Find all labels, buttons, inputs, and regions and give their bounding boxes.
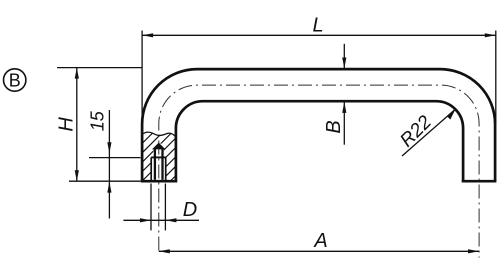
dimension line upper bbox=[343, 44, 345, 69]
tapped hole thread line left bbox=[150, 157, 152, 180]
svg-text:D: D bbox=[183, 199, 197, 221]
drill point cone bbox=[154, 144, 164, 149]
dimension L bbox=[142, 15, 496, 125]
arrowhead lower bbox=[342, 102, 346, 113]
dimension line bbox=[159, 250, 479, 252]
arrowhead bbox=[447, 109, 455, 120]
dimension line bbox=[142, 34, 496, 36]
arrowhead left bbox=[140, 218, 151, 222]
thread depth step line bbox=[151, 156, 166, 158]
dimension A bbox=[159, 230, 479, 253]
radius leader R22 bbox=[396, 109, 455, 156]
extension line right bbox=[495, 31, 497, 125]
svg-text:A: A bbox=[313, 230, 327, 252]
extension line left bbox=[141, 31, 143, 125]
arrowhead bottom bbox=[75, 170, 79, 181]
extension line thread depth bbox=[89, 157, 141, 159]
tapped hole thread line right bbox=[165, 157, 167, 180]
view label circle B bbox=[4, 69, 26, 91]
tube centerline dash-dot bbox=[159, 85, 479, 257]
drill hole wall right bbox=[161, 148, 163, 180]
dimension line bbox=[123, 219, 199, 221]
dimension line bbox=[76, 68, 78, 182]
right foot bottom edge bbox=[462, 180, 497, 183]
arrowhead left bbox=[142, 33, 153, 37]
arrowhead left bbox=[159, 249, 170, 253]
drill hole wall left bbox=[154, 148, 156, 180]
dimension B bbox=[323, 44, 346, 145]
svg-text:H: H bbox=[55, 117, 77, 132]
arrowhead right bbox=[468, 249, 479, 253]
svg-text:15: 15 bbox=[87, 110, 107, 131]
left foot bottom edge bbox=[141, 180, 178, 183]
arrowhead upper bbox=[342, 58, 346, 69]
dimension D bbox=[123, 184, 199, 231]
dimension line bbox=[108, 110, 110, 219]
arrowhead right bbox=[485, 33, 496, 37]
extension line top bbox=[57, 67, 142, 69]
svg-text:B: B bbox=[9, 70, 21, 90]
leader line bbox=[402, 109, 456, 156]
break-out section wavy line bbox=[142, 132, 176, 137]
svg-text:B: B bbox=[323, 120, 345, 133]
extension line left bbox=[150, 184, 152, 231]
svg-text:L: L bbox=[312, 15, 323, 37]
dimension 15 bbox=[87, 110, 140, 219]
arrowhead upper bbox=[107, 142, 111, 153]
handle inner contour bbox=[176, 101, 463, 181]
arrowhead lower bbox=[107, 182, 111, 193]
dimension line lower bbox=[343, 102, 345, 145]
arrowhead top bbox=[75, 68, 79, 79]
arrowhead right bbox=[165, 218, 176, 222]
dimension H bbox=[55, 68, 142, 182]
extension line bottom bbox=[69, 180, 141, 182]
extension line right bbox=[164, 184, 166, 231]
handle outer contour bbox=[142, 69, 495, 181]
